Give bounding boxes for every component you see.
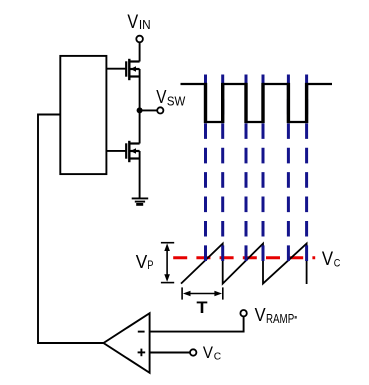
svg-text:IN: IN bbox=[139, 17, 151, 32]
svg-text:V: V bbox=[136, 252, 148, 272]
svg-text:T: T bbox=[197, 298, 209, 317]
svg-text:V: V bbox=[203, 343, 214, 362]
svg-text:SW: SW bbox=[167, 93, 186, 108]
svg-text:P: P bbox=[147, 260, 153, 272]
svg-text:C: C bbox=[334, 258, 341, 270]
svg-text:V: V bbox=[156, 87, 166, 107]
svg-text:RAMP: RAMP bbox=[266, 311, 294, 326]
svg-text:C: C bbox=[214, 351, 222, 363]
svg-text:V: V bbox=[322, 248, 333, 270]
svg-text:V: V bbox=[127, 11, 138, 33]
svg-text:V: V bbox=[255, 304, 267, 325]
